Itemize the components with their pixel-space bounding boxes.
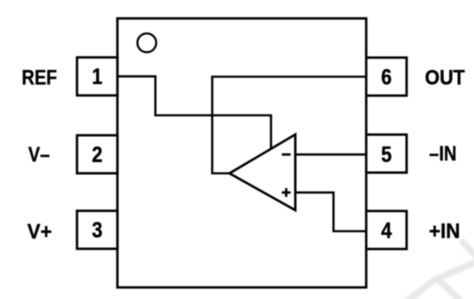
svg-text:V–: V– [28,143,50,167]
pin 3 box [77,211,117,249]
wire pin1 REF to op-amp top input [117,76,271,150]
svg-text:4: 4 [381,219,392,244]
wire pin5 -IN to op-amp inverting input [295,153,366,155]
wire pin4 +IN to op-amp non-inverting input [295,193,366,232]
IC body U1 [117,18,366,287]
pin 5 box [366,135,406,173]
svg-text:OUT: OUT [425,66,466,89]
op-amp non-inverting input plus sign [282,188,291,197]
pin 6 box [366,58,406,96]
svg-text:1: 1 [92,65,103,90]
pin 2 box [77,135,117,173]
svg-text:V+: V+ [27,220,52,244]
watermark [404,240,474,299]
svg-text:2: 2 [92,143,103,168]
svg-text:REF: REF [22,66,57,90]
wire pin6 OUT to op-amp output apex [212,77,366,174]
pin-1 indicator circle [137,33,156,52]
svg-text:5: 5 [381,143,392,168]
pin 1 box [77,57,117,95]
svg-text:–IN: –IN [429,142,456,166]
pin 4 box [366,211,406,249]
op-amp U1A triangle [230,135,296,211]
svg-text:+IN: +IN [429,219,460,243]
svg-text:3: 3 [92,218,103,243]
svg-text:6: 6 [381,65,392,90]
op-amp inverting input minus sign [282,153,291,155]
